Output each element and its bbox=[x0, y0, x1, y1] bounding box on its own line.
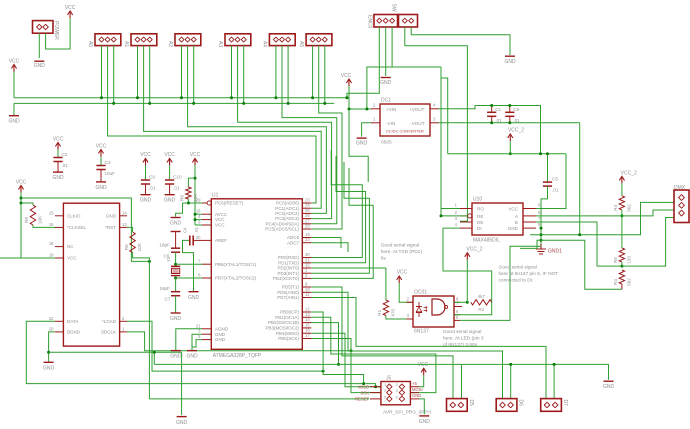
svg-text:20: 20 bbox=[49, 326, 54, 331]
wire R4 to A bbox=[621, 210, 623, 216]
svg-text:GND: GND bbox=[8, 119, 20, 125]
capacitor C1 bbox=[487, 106, 502, 123]
svg-text:VCC: VCC bbox=[53, 136, 64, 142]
svg-text:VCC: VCC bbox=[215, 223, 225, 228]
svg-text:PB2(SS/OC1B): PB2(SS/OC1B) bbox=[268, 320, 300, 325]
supply VCC at J5 bbox=[418, 362, 429, 375]
wire GND5 down bbox=[192, 340, 202, 347]
svg-text:R4: R4 bbox=[613, 204, 618, 210]
svg-text:VCC: VCC bbox=[96, 143, 107, 149]
wire C10 to GND bbox=[169, 184, 171, 194]
ic OC01 6N137 bbox=[407, 290, 463, 335]
connector DMX bbox=[674, 185, 689, 223]
wire PB4 MISO net bbox=[311, 333, 381, 387]
svg-text:0505: 0505 bbox=[381, 140, 392, 146]
dc-dc converter DC1 bbox=[371, 98, 439, 146]
svg-text:+VIN: +VIN bbox=[386, 107, 396, 112]
svg-text:ADC7: ADC7 bbox=[287, 240, 300, 245]
supply VCC at C2 bbox=[53, 136, 64, 149]
wire AVCC stub bbox=[195, 213, 202, 215]
svg-text:VCC_2: VCC_2 bbox=[466, 247, 482, 253]
wire ADC6 fan bbox=[311, 238, 341, 249]
wire VCC_2 rail bbox=[448, 153, 566, 155]
svg-text:VCC: VCC bbox=[65, 5, 76, 11]
svg-text:VCC: VCC bbox=[67, 256, 77, 261]
svg-text:-VOUT: -VOUT bbox=[410, 121, 424, 126]
svg-text:.01: .01 bbox=[149, 186, 156, 191]
svg-text:16: 16 bbox=[49, 222, 54, 227]
svg-text:18pF: 18pF bbox=[159, 243, 170, 248]
svg-text:VCC: VCC bbox=[140, 152, 151, 158]
junction A4 pin1 bbox=[274, 96, 277, 99]
wire C9 to GND bbox=[145, 184, 147, 194]
wire ENC0 pin3 bbox=[392, 27, 441, 67]
junction VCC col a bbox=[20, 197, 23, 200]
svg-text:AGND: AGND bbox=[215, 326, 229, 331]
wire A3 pin3 to GND bus bbox=[243, 46, 245, 104]
junction C6 top bbox=[508, 104, 511, 107]
junction VCC4 bbox=[194, 218, 197, 221]
ground U1 GND bbox=[186, 351, 198, 360]
svg-text:R3: R3 bbox=[613, 279, 618, 285]
junction A5 pin3 bbox=[323, 102, 326, 105]
ic U10 MAX485 bbox=[455, 197, 541, 244]
svg-text:30: 30 bbox=[305, 252, 310, 257]
wire A5 pin2 signal bbox=[311, 46, 342, 229]
svg-text:.01: .01 bbox=[62, 163, 69, 168]
wire A1 pin2 signal bbox=[144, 46, 322, 209]
wire A1 pin3 to GND bus bbox=[149, 46, 151, 104]
wire GND row to DMX pin1 bbox=[530, 202, 674, 234]
svg-text:GND: GND bbox=[164, 198, 176, 204]
svg-text:D7: D7 bbox=[562, 400, 568, 407]
junction A3 pin3 bbox=[242, 102, 245, 105]
wire DMX pin3 to B bbox=[622, 218, 674, 267]
svg-text:DI: DI bbox=[477, 226, 482, 231]
svg-text:J5: J5 bbox=[386, 376, 392, 382]
wire +VOUT rail bbox=[439, 106, 541, 154]
wire -VOUT GND rail bbox=[439, 122, 580, 124]
svg-text:14: 14 bbox=[305, 317, 310, 322]
ground under U2 bbox=[43, 362, 55, 371]
ground under C10 bbox=[164, 195, 176, 204]
note 6n137 pin6 bbox=[499, 265, 559, 284]
svg-text:RO: RO bbox=[477, 207, 484, 212]
wire PB2 net bbox=[311, 323, 338, 365]
svg-text:VCC_2: VCC_2 bbox=[508, 128, 524, 134]
capacitor C5 bbox=[543, 154, 559, 193]
svg-text:ATMEGA328P_TQFP: ATMEGA328P_TQFP bbox=[213, 353, 262, 359]
wire A5 pin1 to VCC bus bbox=[312, 46, 314, 98]
wire RO net bbox=[441, 67, 460, 216]
wire DI net bbox=[443, 228, 492, 302]
wire bus1 VCC rail bbox=[14, 97, 347, 99]
junction A2 pin1 bbox=[180, 96, 183, 99]
junction VCC col b bbox=[20, 202, 23, 205]
svg-text:R9: R9 bbox=[24, 217, 29, 223]
supply VCC at C9 bbox=[140, 152, 151, 165]
svg-text:C9: C9 bbox=[149, 175, 155, 180]
svg-text:10K: 10K bbox=[38, 215, 43, 224]
svg-text:PB3(MOSI/OC2): PB3(MOSI/OC2) bbox=[265, 326, 299, 331]
wire SW pin1 to DE bbox=[405, 27, 468, 221]
svg-text:C3: C3 bbox=[105, 160, 111, 165]
svg-text:VCC: VCC bbox=[341, 73, 352, 79]
svg-text:PB4(MISO): PB4(MISO) bbox=[276, 331, 300, 336]
ground under ENC0 bbox=[380, 78, 392, 87]
wire VCC to C3 bbox=[100, 157, 102, 166]
svg-text:GND: GND bbox=[176, 420, 188, 426]
svg-text:PB1(OC1A): PB1(OC1A) bbox=[275, 315, 299, 320]
svg-text:.01: .01 bbox=[495, 118, 502, 123]
svg-text:*LOAD: *LOAD bbox=[102, 319, 117, 324]
wire POWER pin1 to GND bbox=[38, 33, 40, 58]
wire VCC col U2 bbox=[20, 193, 22, 259]
wire GND step left bbox=[520, 240, 541, 248]
svg-text:R8: R8 bbox=[180, 195, 185, 201]
svg-text:GND: GND bbox=[215, 332, 226, 337]
wire B net bbox=[536, 222, 622, 266]
wire A2 pin1 to VCC bus bbox=[181, 46, 183, 98]
svg-text:here at 6n137 pin 6, IF NOT: here at 6n137 pin 6, IF NOT bbox=[499, 271, 559, 277]
svg-text:.01: .01 bbox=[173, 186, 180, 191]
wire VCC to C2 bbox=[57, 150, 59, 158]
svg-text:*CLKSEL: *CLKSEL bbox=[67, 225, 87, 230]
svg-text:Good serial signal: Good serial signal bbox=[381, 243, 419, 249]
svg-text:CLKIO: CLKIO bbox=[67, 213, 81, 218]
capacitor C4 AREF bbox=[183, 227, 203, 292]
svg-text:C10: C10 bbox=[173, 175, 182, 180]
svg-text:MISO: MISO bbox=[358, 384, 369, 389]
ground right of SW bbox=[504, 56, 516, 65]
capacitor C10 bbox=[165, 175, 182, 191]
connector SW bbox=[391, 4, 418, 28]
svg-text:VCC: VCC bbox=[418, 362, 429, 368]
junction OC01 pullup bbox=[466, 301, 469, 304]
svg-text:GND: GND bbox=[356, 141, 368, 147]
wire VCC to C10 bbox=[169, 165, 171, 180]
svg-text:A2: A2 bbox=[167, 41, 173, 47]
wire XTAL2 row bbox=[176, 277, 202, 279]
junction R6 net bbox=[148, 260, 151, 263]
supply VCC_2 mid bbox=[508, 128, 525, 142]
wire PB0 net bbox=[311, 312, 363, 384]
wire R3 to GND row bbox=[621, 284, 623, 289]
supply VCC at OC01 bbox=[397, 270, 408, 284]
connector A1 bbox=[123, 34, 157, 48]
svg-text:PB7(XTAL2/TOSC2): PB7(XTAL2/TOSC2) bbox=[215, 276, 257, 281]
svg-text:DMX: DMX bbox=[674, 185, 686, 191]
svg-text:Good serial signal: Good serial signal bbox=[443, 329, 481, 335]
wire PD4 loop bbox=[311, 168, 373, 278]
wire XTAL2 to 18pF bottom bbox=[175, 278, 177, 292]
resistor R5 bbox=[613, 248, 631, 264]
ground flipped at 18pF top bbox=[171, 231, 181, 233]
connector D7 bbox=[541, 399, 569, 412]
svg-text:6N137: 6N137 bbox=[414, 329, 429, 335]
svg-text:GND1: GND1 bbox=[548, 249, 562, 255]
capacitor C6 bbox=[505, 106, 520, 123]
wire A0 pin3 to GND bus bbox=[113, 46, 115, 104]
wire rail left elbow bbox=[441, 78, 448, 154]
wire GND row right bbox=[49, 351, 182, 353]
wire A4 pin2 signal bbox=[282, 46, 337, 224]
svg-text:DATA: DATA bbox=[67, 319, 78, 324]
svg-text:3: 3 bbox=[384, 389, 386, 393]
wire GND row to LED bus bbox=[153, 352, 155, 364]
wire SCK net bbox=[311, 339, 381, 393]
wire -VIN to GND bbox=[362, 123, 371, 137]
svg-text:GND: GND bbox=[603, 384, 615, 390]
wire R1 to OC01 pin3 bbox=[386, 316, 407, 320]
svg-text:.01: .01 bbox=[194, 227, 199, 233]
wire PD3 loop bbox=[311, 162, 369, 273]
svg-text:PC6(/RESET): PC6(/RESET) bbox=[215, 201, 244, 206]
wire RESET to J5 bbox=[149, 398, 369, 400]
wire PD0 loop bbox=[311, 150, 362, 258]
ground under J5 bbox=[419, 416, 431, 425]
connector D5 bbox=[447, 399, 475, 412]
wire A0 pin2 signal bbox=[108, 46, 316, 203]
ground under POWER bbox=[34, 61, 46, 69]
resistor R2 bbox=[471, 294, 492, 312]
svg-text:of 6N137) 3.68v: of 6N137) 3.68v bbox=[443, 342, 478, 348]
wire caps GND down bbox=[579, 123, 581, 235]
wire ADC7 fan bbox=[311, 243, 348, 252]
svg-text:GND: GND bbox=[52, 175, 64, 181]
junction ENC0 bus1 bbox=[345, 96, 348, 99]
svg-text:GND: GND bbox=[34, 63, 46, 69]
junction RESET bbox=[187, 202, 190, 205]
svg-text:GND: GND bbox=[170, 316, 182, 322]
resistor R3 bbox=[613, 270, 631, 286]
wire VCC_2 stem bbox=[509, 141, 511, 154]
svg-text:D5: D5 bbox=[468, 400, 474, 407]
wire SW pin2 to GND bbox=[411, 27, 510, 55]
crystal Q1 bbox=[166, 256, 180, 275]
junction A2 pin3 bbox=[192, 102, 195, 105]
svg-text:GND: GND bbox=[140, 198, 152, 204]
svg-text:DC/DC CONVERTER: DC/DC CONVERTER bbox=[386, 129, 424, 134]
connector POWER bbox=[33, 21, 60, 41]
supply VCC at DC1 input bbox=[341, 73, 352, 86]
wire VCC to R6 top bbox=[21, 198, 149, 261]
svg-text:C7: C7 bbox=[165, 297, 171, 302]
svg-text:C2: C2 bbox=[62, 152, 68, 157]
svg-text:here. At TXD (PD1): here. At TXD (PD1) bbox=[381, 249, 423, 255]
wire RESET to GND bbox=[176, 203, 189, 217]
wire A2 pin2 signal bbox=[188, 46, 327, 214]
wire A5 pin3 to GND bus bbox=[324, 46, 326, 104]
junction XTAL2 bbox=[174, 277, 177, 280]
svg-text:GND: GND bbox=[215, 337, 226, 342]
svg-text:VCC_2: VCC_2 bbox=[621, 171, 637, 177]
svg-text:B: B bbox=[515, 220, 518, 225]
junction C5 rail bbox=[546, 152, 549, 155]
svg-text:.01: .01 bbox=[552, 188, 559, 193]
wire A3 pin1 to VCC bus bbox=[231, 46, 233, 98]
junction PB0-bus bbox=[362, 382, 365, 385]
ground under C9 bbox=[140, 195, 152, 204]
supply VCC at C10 bbox=[164, 152, 175, 165]
svg-text:C5: C5 bbox=[552, 177, 558, 182]
svg-text:6: 6 bbox=[396, 395, 398, 399]
svg-text:SCK: SCK bbox=[360, 390, 369, 395]
wire bus2 GND rail bbox=[14, 102, 334, 104]
svg-text:C1: C1 bbox=[495, 107, 501, 112]
svg-text:10K: 10K bbox=[193, 193, 198, 202]
junction R8 top bbox=[194, 177, 197, 180]
svg-text:PD0(RXD): PD0(RXD) bbox=[278, 255, 300, 260]
ground AGND bbox=[170, 351, 182, 360]
svg-text:2: 2 bbox=[396, 383, 398, 387]
svg-text:R5: R5 bbox=[613, 257, 618, 263]
svg-text:1: 1 bbox=[384, 383, 386, 387]
wire D5 pin2 up bbox=[461, 364, 463, 398]
ground bottom middle bbox=[176, 417, 188, 426]
svg-text:PB0(ICP): PB0(ICP) bbox=[280, 310, 300, 315]
capacitor C3 bbox=[96, 160, 115, 176]
supply VCC at C3 bbox=[96, 143, 107, 156]
wire J5 GND bbox=[419, 399, 424, 415]
wire VCC column U1 bbox=[194, 165, 196, 225]
wire VCC to +5 bbox=[419, 375, 424, 386]
svg-text:+5: +5 bbox=[412, 381, 417, 386]
svg-text:10K: 10K bbox=[137, 242, 142, 251]
ground above XTAL cap bbox=[170, 218, 182, 227]
capacitor C9 bbox=[141, 175, 156, 191]
wire ENC0 pin2 to GND bbox=[385, 27, 387, 76]
wire VCC extension bbox=[349, 109, 368, 182]
connector A4 bbox=[261, 34, 295, 48]
svg-text:MAX485DIL: MAX485DIL bbox=[473, 238, 500, 244]
wire ENC0 pin1 down bbox=[347, 27, 379, 98]
svg-text:470: 470 bbox=[391, 308, 396, 316]
wire VCC to bus1 bbox=[13, 72, 15, 98]
svg-text:-VIN: -VIN bbox=[386, 121, 395, 126]
svg-text:PD4(XCKT0): PD4(XCKT0) bbox=[273, 276, 300, 281]
svg-text:NC: NC bbox=[67, 244, 74, 249]
junction A4 pin3 bbox=[287, 102, 290, 105]
svg-text:PD5(T1): PD5(T1) bbox=[282, 285, 300, 290]
wire PD6 to D6 bbox=[311, 292, 502, 398]
svg-text:A5: A5 bbox=[298, 41, 304, 47]
svg-text:here. At LED (pin 3: here. At LED (pin 3 bbox=[443, 336, 484, 342]
wire GND3 down bbox=[192, 334, 202, 350]
wire VCC_2 to pin8 bbox=[466, 260, 468, 303]
wire LOAD net bbox=[127, 321, 323, 371]
junction A1 pin3 bbox=[148, 102, 151, 105]
wire PD7 to D7 bbox=[311, 298, 546, 399]
svg-text:22: 22 bbox=[49, 316, 54, 321]
junction GND row x578 bbox=[578, 233, 581, 236]
svg-text:RESET: RESET bbox=[355, 397, 369, 402]
wire VCC_2 to R4 bbox=[621, 183, 623, 195]
svg-text:DC1: DC1 bbox=[381, 98, 391, 104]
connector J5 AVR_SPI_PRG bbox=[355, 376, 431, 416]
wire MOSI net bbox=[311, 317, 436, 392]
supply VCC left-edge bbox=[9, 58, 20, 71]
svg-text:SW: SW bbox=[391, 4, 397, 12]
junction RE node2 bbox=[440, 214, 443, 217]
wire A1 pin1 to VCC bus bbox=[137, 46, 139, 98]
wire VCC4 stub bbox=[195, 219, 202, 221]
resistor R8 bbox=[180, 178, 198, 202]
wire C3 to GND bbox=[100, 170, 102, 182]
junction A5 pin1 bbox=[311, 96, 314, 99]
svg-text:GND: GND bbox=[380, 80, 392, 86]
svg-text:562: 562 bbox=[627, 278, 632, 286]
wire GND to 18pF top bbox=[175, 232, 177, 249]
supply VCC_2 at OC01 bbox=[465, 247, 483, 260]
svg-text:15: 15 bbox=[49, 210, 54, 215]
connector A2 bbox=[167, 34, 201, 48]
svg-text:VCC: VCC bbox=[215, 217, 225, 222]
svg-text:GND: GND bbox=[186, 354, 198, 360]
svg-text:DE: DE bbox=[477, 220, 483, 225]
svg-text:14: 14 bbox=[122, 210, 127, 215]
svg-text:A3: A3 bbox=[217, 41, 223, 47]
svg-text:GND: GND bbox=[412, 393, 421, 398]
svg-text:21: 21 bbox=[196, 323, 201, 328]
svg-text:PC5(ADC5/SCL): PC5(ADC5/SCL) bbox=[265, 227, 299, 232]
supply VCC at U1 bbox=[190, 152, 201, 165]
junction A node bbox=[620, 214, 623, 217]
wire RE stub bbox=[441, 215, 468, 217]
svg-text:A0: A0 bbox=[87, 41, 93, 47]
wire cap to XTAL1 node bbox=[175, 252, 177, 264]
wire D6 pin2 up bbox=[510, 364, 512, 398]
wire PD2 to R1 bbox=[311, 267, 386, 269]
svg-text:A4: A4 bbox=[261, 41, 267, 47]
junction D6 bus bbox=[509, 363, 512, 366]
svg-text:VCC: VCC bbox=[397, 270, 408, 276]
junction SDCLK-SCK bbox=[350, 349, 353, 352]
resistor R4 bbox=[613, 196, 631, 212]
wire PD1 loop bbox=[311, 156, 365, 263]
junction GND col a bbox=[540, 233, 543, 236]
ground left-edge bbox=[8, 116, 20, 125]
svg-text:RE: RE bbox=[477, 214, 483, 219]
wire OC01 pin5 to GND1 bbox=[460, 246, 541, 320]
capacitor 18pF top bbox=[159, 243, 180, 259]
svg-text:SDCLK: SDCLK bbox=[101, 330, 116, 335]
ic U2 LED driver bbox=[49, 203, 128, 346]
resistor R6 bbox=[124, 227, 142, 252]
wire R8 to RESET bbox=[188, 199, 202, 203]
junction XTAL1 bbox=[174, 263, 177, 266]
svg-text:PB6(XTAL1/TOSC1): PB6(XTAL1/TOSC1) bbox=[215, 262, 257, 267]
svg-text:10uF: 10uF bbox=[105, 171, 116, 176]
svg-text:U10: U10 bbox=[473, 197, 482, 203]
svg-text:13: 13 bbox=[305, 312, 310, 317]
svg-text:133: 133 bbox=[627, 256, 632, 264]
svg-text:R1: R1 bbox=[377, 309, 382, 315]
svg-text:28: 28 bbox=[305, 224, 310, 229]
svg-text:POWER: POWER bbox=[53, 21, 59, 40]
wire VCC to C9 bbox=[145, 165, 147, 180]
wire AGND down bbox=[176, 329, 202, 350]
junction rail x540 bbox=[539, 152, 542, 155]
supply VCC top-left bbox=[65, 5, 76, 18]
wire A2 pin3 to GND bus bbox=[193, 46, 195, 104]
svg-text:13: 13 bbox=[122, 222, 127, 227]
wire A4 pin3 to GND bus bbox=[287, 46, 289, 104]
svg-text:GND: GND bbox=[508, 226, 519, 231]
svg-text:GND: GND bbox=[106, 213, 117, 218]
connector A5 bbox=[298, 34, 332, 48]
connector A0 bbox=[87, 34, 121, 48]
